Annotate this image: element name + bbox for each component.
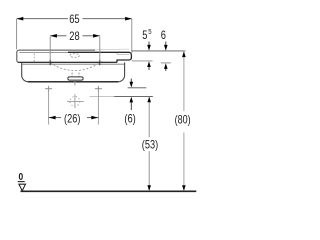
dim 28 arrow left xyxy=(50,34,57,38)
washbasin rim slab fill xyxy=(17,50,132,62)
basin apron lower line xyxy=(22,63,124,65)
dim (53) bottom arrow xyxy=(147,185,151,191)
svg-text:(6): (6) xyxy=(124,111,135,125)
fixing hole cross right xyxy=(95,86,102,92)
ref line for (6) bottom / (53) top xyxy=(90,95,115,97)
dim 65 extension left xyxy=(16,19,18,49)
floor line xyxy=(21,190,197,192)
dim (6) arrows xyxy=(130,79,134,111)
ref line under basin for (6) top xyxy=(128,87,147,89)
dim 28 arrow right xyxy=(93,34,100,38)
svg-text:(80): (80) xyxy=(175,112,191,126)
dim 65 arrow right xyxy=(125,17,132,21)
zero level triangle xyxy=(19,184,26,191)
dim (26) arrow right xyxy=(91,116,98,120)
dim 65 line xyxy=(17,18,68,20)
dim (26) extension right xyxy=(97,90,99,125)
dim (53) top arrow xyxy=(147,97,151,103)
top reference line right xyxy=(132,50,186,52)
dim (53) line xyxy=(148,98,150,138)
dim 28 extension right xyxy=(99,37,101,61)
dim 5.5 arrows xyxy=(147,42,151,71)
dim 28 line xyxy=(50,35,66,37)
drain flange xyxy=(68,73,83,81)
dim 65 arrow left xyxy=(17,17,24,21)
rim bottom reference line (5.5) xyxy=(132,60,153,62)
basin body xyxy=(22,62,125,81)
drain centerline xyxy=(74,81,76,86)
dim (26) extension left xyxy=(48,90,50,125)
rim front top dark line and right edge xyxy=(68,52,131,62)
hidden edge dashed vertical xyxy=(33,54,35,63)
svg-text:6: 6 xyxy=(161,28,166,42)
svg-text:5: 5 xyxy=(148,27,151,36)
overflow ellipse dashed xyxy=(70,54,80,58)
zero level underline xyxy=(18,181,25,183)
svg-text:5: 5 xyxy=(142,28,147,42)
waste outlet crosshair xyxy=(67,100,84,102)
apron bottom reference line (6) xyxy=(161,62,171,64)
svg-text:(53): (53) xyxy=(142,138,158,152)
svg-text:65: 65 xyxy=(69,12,80,26)
rim back edge faint right part xyxy=(95,48,129,51)
dim (80) bottom arrow xyxy=(182,185,186,191)
waste outlet dotted circle xyxy=(70,97,80,107)
dim (26) line xyxy=(49,117,61,119)
dim 28 extension left xyxy=(49,37,51,61)
basin body bottom edge dark xyxy=(28,81,118,83)
tap hole cross left xyxy=(47,60,54,66)
dim (26) arrow left xyxy=(49,116,56,120)
svg-text:28: 28 xyxy=(69,29,80,43)
bowl bottom dashed curve xyxy=(50,63,100,71)
dim 65 extension right xyxy=(131,19,133,53)
tap bench inner step line xyxy=(117,54,129,56)
dim 6 arrows xyxy=(164,42,168,72)
dim (80) line xyxy=(183,52,185,111)
fixing hole cross left xyxy=(45,86,52,92)
dim (80) top arrow xyxy=(182,51,186,57)
svg-text:(26): (26) xyxy=(64,112,80,126)
rim left cap and bottom outline xyxy=(17,50,117,62)
rim inner top line left xyxy=(20,52,69,54)
tap hole cross right xyxy=(96,60,103,66)
